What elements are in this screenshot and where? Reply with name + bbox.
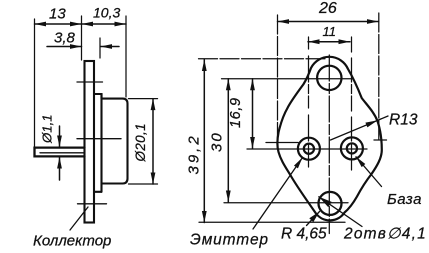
- base pin circle inner: [347, 143, 357, 153]
- dim phi20,1 extension top: [129, 98, 158, 100]
- svg-text:Эмиттер: Эмиттер: [190, 232, 269, 249]
- leader R4,65: [307, 212, 320, 226]
- dim 3,8 right segment: [101, 46, 120, 48]
- left corner tick: [266, 142, 298, 144]
- dim 16,9 line: [252, 79, 254, 149]
- dim 13 line: [35, 23, 82, 25]
- pins horizontal centerline: [247, 148, 367, 150]
- emitter pin circle outer: [298, 138, 320, 160]
- base pin circle outer: [341, 137, 363, 159]
- dim 11 line: [308, 41, 350, 43]
- flange tick upper: [77, 81, 103, 83]
- rim right face: [100, 94, 102, 192]
- dim phi20,1 line: [152, 99, 154, 184]
- svg-text:39,2: 39,2: [186, 133, 203, 174]
- svg-text:База: База: [387, 191, 422, 208]
- extension line can right: [125, 16, 127, 97]
- dim phi20,1 extension bottom: [129, 183, 158, 185]
- svg-text:10,3: 10,3: [93, 5, 120, 21]
- centerline can: [77, 138, 121, 140]
- extension line 26 left: [277, 15, 279, 139]
- bottom hole: [319, 192, 342, 215]
- can body: [102, 99, 128, 184]
- svg-text:11: 11: [323, 24, 337, 39]
- svg-text:R13: R13: [389, 112, 418, 129]
- dim 39,2 line: [203, 60, 205, 223]
- pin (lead): [35, 148, 85, 157]
- pin centerline left: [308, 37, 310, 172]
- dim 30 line: [227, 79, 229, 202]
- extension 39,2 bottom: [199, 221, 345, 223]
- top hole: [317, 66, 341, 90]
- leader 2 holes: [319, 197, 362, 227]
- flange tick lower: [78, 203, 107, 205]
- flange plate: [85, 61, 95, 223]
- flange outline: [277, 57, 381, 221]
- leader R13: [331, 116, 389, 140]
- svg-text:26: 26: [318, 0, 337, 17]
- leader Kollektor: [70, 207, 88, 230]
- dim 26 line: [278, 21, 379, 23]
- leader Baza: [356, 157, 382, 187]
- leader Emitter: [253, 158, 303, 230]
- top hole horizontal centerline: [222, 78, 353, 80]
- svg-text:30: 30: [209, 131, 226, 152]
- extension tick rim right: [99, 38, 101, 58]
- svg-text:3,8: 3,8: [54, 30, 76, 47]
- pin centerline right: [351, 37, 353, 172]
- leader 2 holes arrowhead: [319, 197, 332, 207]
- svg-text:Ø1,1: Ø1,1: [40, 114, 55, 144]
- svg-text:R 4,65: R 4,65: [281, 226, 327, 243]
- dim phi1,1 upper arrow: [59, 126, 61, 147]
- svg-text:16,9: 16,9: [228, 97, 244, 128]
- svg-text:13: 13: [49, 6, 66, 23]
- svg-text:2отв∅4,1: 2отв∅4,1: [343, 226, 427, 243]
- svg-text:Ø20,1: Ø20,1: [133, 123, 148, 162]
- extension line flange left: [81, 16, 83, 60]
- extension line pin tip: [34, 19, 36, 157]
- can rim: [94, 94, 102, 192]
- pin inner line: [40, 152, 85, 154]
- central vertical centerline: [328, 55, 330, 234]
- bottom hole horizontal centerline: [224, 202, 348, 204]
- dim 10,3 line: [82, 23, 127, 25]
- dim phi1,1 lower arrow: [59, 157, 61, 180]
- leader R13 arrowhead: [365, 120, 377, 127]
- extension line 26 right: [378, 13, 380, 140]
- extension 39,2 top: [199, 58, 328, 60]
- right corner tick: [374, 139, 387, 141]
- emitter pin circle inner: [304, 144, 314, 154]
- dim 3,8 left segment: [47, 46, 82, 48]
- leader R4,65 arrowhead: [309, 212, 319, 223]
- svg-text:Коллектор: Коллектор: [33, 233, 111, 250]
